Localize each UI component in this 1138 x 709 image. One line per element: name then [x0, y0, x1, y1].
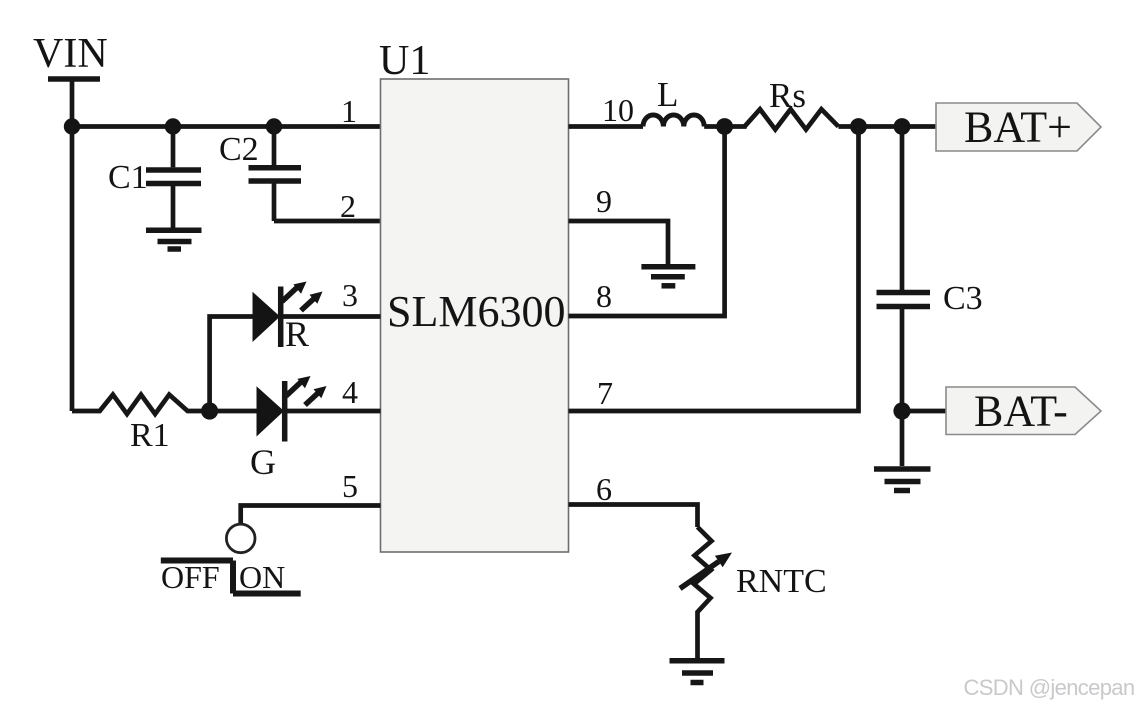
svg-text:R1: R1 [130, 417, 170, 454]
switch OFF bar [161, 558, 233, 564]
switch ON bar [233, 591, 301, 597]
wire pin 7 riser [569, 127, 859, 412]
ground pin 9 [641, 267, 695, 286]
svg-text:9: 9 [596, 183, 612, 219]
svg-text:L: L [657, 75, 678, 114]
svg-text:SLM6300: SLM6300 [387, 287, 565, 336]
switch lever vertical [230, 561, 236, 594]
ground below RNTC [670, 661, 725, 683]
svg-text:C1: C1 [108, 159, 148, 196]
svg-text:RNTC: RNTC [736, 563, 827, 600]
wire BAT- node to tag [902, 409, 948, 414]
wire left vertical to R1 [70, 127, 75, 412]
svg-text:G: G [250, 442, 276, 482]
svg-text:Rs: Rs [769, 76, 806, 115]
ground below BAT- [874, 469, 931, 491]
resistor R1 [72, 395, 210, 414]
wire junction to LED G [210, 409, 257, 414]
svg-text:BAT-: BAT- [974, 387, 1068, 436]
ground below C1 [146, 230, 202, 249]
node junction C2 [266, 118, 282, 134]
svg-text:1: 1 [341, 93, 357, 129]
wire pin 8 vertical [569, 127, 725, 317]
inductor L [643, 115, 704, 127]
svg-text:5: 5 [342, 468, 358, 504]
op-amp U1 IC box SLM6300 [381, 79, 569, 552]
LED R [253, 282, 323, 348]
svg-text:VIN: VIN [33, 31, 108, 77]
svg-text:6: 6 [596, 471, 612, 507]
svg-text:10: 10 [602, 92, 634, 128]
svg-text:R: R [285, 314, 309, 354]
svg-text:BAT+: BAT+ [964, 103, 1072, 152]
capacitor C3 [877, 127, 931, 412]
svg-text:2: 2 [340, 188, 356, 224]
node junction pin7 riser [850, 118, 867, 135]
svg-text:ON: ON [239, 559, 285, 595]
wire Rs to BAT+ [838, 124, 938, 129]
svg-text:4: 4 [342, 374, 358, 410]
node junction C1 [165, 118, 181, 134]
node VIN bar [48, 76, 100, 82]
thermistor RNTC [694, 527, 712, 658]
svg-text:7: 7 [597, 375, 613, 411]
LED G [257, 376, 327, 442]
wire pin 6 [569, 505, 698, 528]
wire VIN vertical [70, 79, 75, 127]
svg-text:OFF: OFF [161, 559, 220, 595]
wire inductor to Rs [704, 124, 746, 129]
thermistor RNTC arrow [680, 562, 719, 589]
node BAT- tag [946, 387, 1101, 435]
node junction C3 top [894, 118, 911, 135]
wire main rail VIN to pin1 [72, 124, 381, 129]
wire LED R to pin 3 [281, 314, 381, 319]
wire LED G to pin 4 [285, 409, 381, 414]
node junction BAT- [893, 402, 910, 419]
svg-text:3: 3 [342, 277, 358, 313]
wire C2 to pin 2 [274, 219, 381, 224]
wire pin 9 [569, 221, 669, 264]
node BAT+ tag [936, 103, 1101, 151]
svg-text:C2: C2 [219, 131, 259, 168]
node junction after L [716, 118, 733, 135]
switch contact circle [226, 524, 255, 553]
node junction R1 right [201, 402, 218, 419]
resistor Rs [745, 109, 839, 129]
capacitor C1 [146, 127, 201, 228]
svg-text:8: 8 [596, 278, 612, 314]
svg-text:C3: C3 [943, 280, 983, 317]
wire BAT- node to ground [900, 411, 905, 466]
wire junction up to LED R [210, 317, 253, 412]
wire pin 5 [241, 506, 381, 524]
node junction VIN [64, 118, 80, 134]
capacitor C2 [249, 127, 302, 222]
svg-text:CSDN @jencepan: CSDN @jencepan [964, 675, 1135, 700]
svg-text:U1: U1 [379, 38, 430, 84]
wire pin 10 to inductor [569, 124, 644, 129]
